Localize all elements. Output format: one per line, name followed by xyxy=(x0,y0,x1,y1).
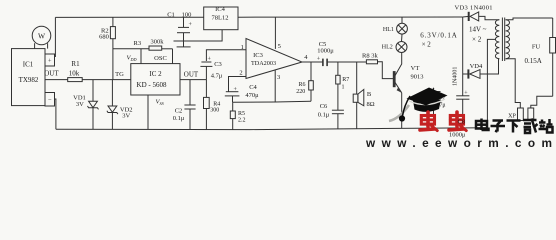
capacitor C3 xyxy=(201,61,211,63)
svg-text:1000μ: 1000μ xyxy=(317,48,334,55)
svg-text:× 2: × 2 xyxy=(422,40,432,48)
svg-text:0.1μ: 0.1μ xyxy=(173,115,185,122)
svg-text:R1: R1 xyxy=(71,60,80,68)
primary bottom wire to plug xyxy=(506,59,521,108)
capacitor C2 xyxy=(189,80,191,105)
svg-text:1N4001: 1N4001 xyxy=(453,67,459,86)
svg-text:4: 4 xyxy=(304,54,308,61)
wire minus terminal to ground rail xyxy=(55,99,56,129)
resistor R6 xyxy=(310,62,312,81)
svg-text:8Ω: 8Ω xyxy=(366,101,374,108)
svg-text:100: 100 xyxy=(182,12,192,19)
svg-text:14V ~: 14V ~ xyxy=(469,26,487,34)
watermark red characters xyxy=(420,112,466,131)
svg-text:B: B xyxy=(367,91,372,98)
svg-text:R7: R7 xyxy=(342,77,349,83)
wire IC4 ground xyxy=(174,30,223,41)
resistor R7 xyxy=(337,62,339,75)
svg-text:XP: XP xyxy=(508,114,516,120)
svg-text:OSC: OSC xyxy=(154,55,167,62)
diode VD4 xyxy=(463,73,469,75)
output wire from pin 4 xyxy=(302,61,323,63)
IC1 minus terminal xyxy=(45,93,55,107)
ground xyxy=(183,41,185,47)
wire OUT of IC2 xyxy=(180,79,206,81)
top supply rail xyxy=(55,16,203,18)
svg-text:2.2: 2.2 xyxy=(238,117,246,123)
capacitor C1 xyxy=(183,17,185,27)
svg-text:C2: C2 xyxy=(175,107,183,114)
capacitor C6 xyxy=(332,109,344,111)
svg-text:+: + xyxy=(189,22,193,28)
svg-text:78L12: 78L12 xyxy=(212,15,229,22)
svg-text:FU: FU xyxy=(532,43,541,50)
node wire C4/R5/pin3/R6 xyxy=(233,101,312,102)
svg-text:3V: 3V xyxy=(76,101,84,108)
IC1 plus terminal xyxy=(45,54,55,66)
svg-text:6.3V/0.1A: 6.3V/0.1A xyxy=(420,32,457,40)
watermark graduation cap xyxy=(389,88,448,122)
resistor R4 xyxy=(205,80,207,98)
wire OSC pin xyxy=(162,48,173,50)
IC4 78L12 box xyxy=(204,7,238,30)
watermark text dianzi xiazaizhan xyxy=(476,119,553,134)
op-amp IC3 TDA2003 xyxy=(246,39,302,79)
microphone W xyxy=(32,26,51,45)
wire pin 1 xyxy=(206,50,246,61)
zener VD1 xyxy=(92,80,94,102)
svg-text:3V: 3V xyxy=(122,113,130,120)
svg-text:C6: C6 xyxy=(320,103,328,110)
svg-text:IC1: IC1 xyxy=(23,61,34,69)
svg-text:300k: 300k xyxy=(151,39,165,46)
fuse FU xyxy=(552,18,554,38)
svg-text:TDA2003: TDA2003 xyxy=(251,60,276,67)
svg-text:IC3: IC3 xyxy=(253,52,263,59)
svg-text:R5: R5 xyxy=(238,111,245,117)
svg-text:3: 3 xyxy=(277,74,280,81)
svg-text:R6: R6 xyxy=(298,82,305,88)
resistor R3 xyxy=(149,46,162,50)
wire pin 3 xyxy=(274,70,276,102)
wire pin 2 xyxy=(229,77,247,92)
transformer centre tap xyxy=(487,39,495,127)
svg-text:+: + xyxy=(48,58,52,65)
transformer T xyxy=(495,20,499,59)
svg-text:4.7μ: 4.7μ xyxy=(211,73,223,80)
rectifier node column xyxy=(462,17,464,96)
svg-text:680: 680 xyxy=(99,34,109,41)
zener VD2 xyxy=(111,80,113,106)
wire OUT / TG net xyxy=(45,79,68,81)
svg-text:HL2: HL2 xyxy=(382,45,393,51)
wire Vss pin xyxy=(147,95,149,129)
svg-text:9013: 9013 xyxy=(411,73,424,80)
IC1 TX982 box xyxy=(12,49,46,106)
svg-text:VT: VT xyxy=(411,65,420,72)
svg-text:−: − xyxy=(48,97,52,104)
svg-text:220: 220 xyxy=(296,89,305,95)
capacitor C7 xyxy=(433,88,435,92)
svg-text:× 2: × 2 xyxy=(472,36,482,44)
svg-text:0.15A: 0.15A xyxy=(525,57,542,65)
wire Vdd pin xyxy=(140,49,142,64)
ground rail xyxy=(56,128,488,130)
diode VD3 xyxy=(463,15,469,18)
svg-text:OUT: OUT xyxy=(184,70,199,78)
IC2 KD-5608 box xyxy=(131,64,180,95)
primary top wire xyxy=(506,18,553,20)
resistor R8 xyxy=(366,60,377,64)
svg-text:470μ: 470μ xyxy=(245,92,259,99)
svg-text:TX982: TX982 xyxy=(19,76,39,84)
speaker B xyxy=(356,62,358,94)
svg-text:10k: 10k xyxy=(69,69,80,77)
plug XP xyxy=(518,108,524,121)
wire Vdd node xyxy=(113,48,149,50)
svg-text:C4: C4 xyxy=(249,84,257,91)
svg-text:1: 1 xyxy=(342,85,345,91)
svg-text:300: 300 xyxy=(210,108,219,114)
wire plus terminal to rail xyxy=(54,17,57,56)
svg-text:KD - 5608: KD - 5608 xyxy=(137,81,167,89)
svg-text:IC4: IC4 xyxy=(215,6,226,13)
svg-text:VSS: VSS xyxy=(156,99,165,107)
capacitor C4 xyxy=(226,91,239,93)
svg-text:2: 2 xyxy=(239,70,242,77)
lamp HL2 xyxy=(401,34,404,42)
resistor R2 xyxy=(112,17,114,26)
lamp HL1 xyxy=(401,17,403,23)
capacitor C5 xyxy=(322,59,324,67)
svg-text:IC 2: IC 2 xyxy=(149,70,162,78)
svg-text:R8 3k: R8 3k xyxy=(362,53,378,60)
resistor R1 xyxy=(68,78,83,82)
svg-text:OUT: OUT xyxy=(44,70,59,78)
svg-text:C8: C8 xyxy=(458,118,466,125)
svg-text:C3: C3 xyxy=(214,61,222,68)
svg-text:TG: TG xyxy=(115,71,124,78)
svg-text:0.1μ: 0.1μ xyxy=(318,112,330,119)
wire pin 5 to rail xyxy=(274,17,276,49)
transistor VT 9013 xyxy=(393,72,395,87)
svg-text:R3: R3 xyxy=(134,40,142,47)
svg-text:VD3 1N4001: VD3 1N4001 xyxy=(455,5,493,12)
svg-text:VD4: VD4 xyxy=(470,63,483,70)
svg-text:HL1: HL1 xyxy=(383,27,394,33)
svg-text:5: 5 xyxy=(278,43,281,50)
svg-text:C1: C1 xyxy=(167,12,175,19)
svg-text:W: W xyxy=(38,32,46,41)
resistor R5 xyxy=(232,102,234,111)
svg-text:VDD: VDD xyxy=(127,55,137,63)
